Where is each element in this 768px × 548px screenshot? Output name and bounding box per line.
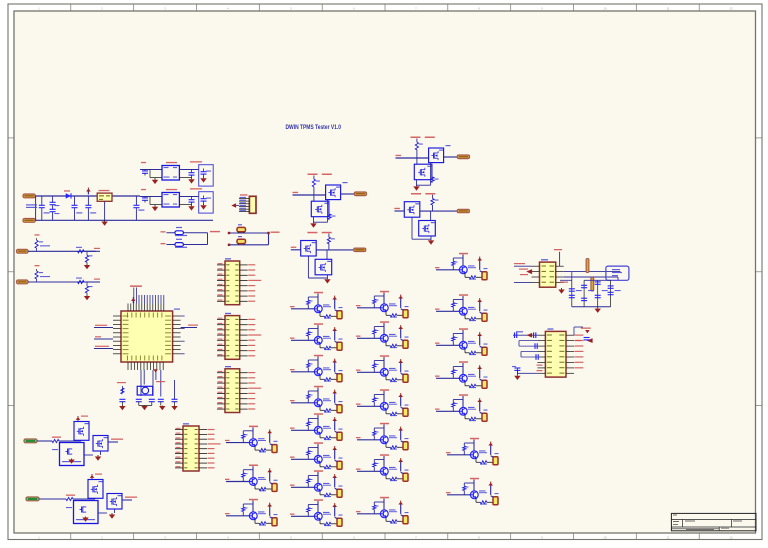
svg-text:DWIN TPMS Tester V1.0: DWIN TPMS Tester V1.0 [286,124,342,131]
svg-text:12: 12 [729,535,733,539]
svg-text:11: 11 [666,535,669,539]
svg-text:12: 12 [729,6,733,10]
svg-text:10: 10 [603,535,607,539]
svg-text:11: 11 [666,6,669,10]
svg-text:10: 10 [603,6,607,10]
